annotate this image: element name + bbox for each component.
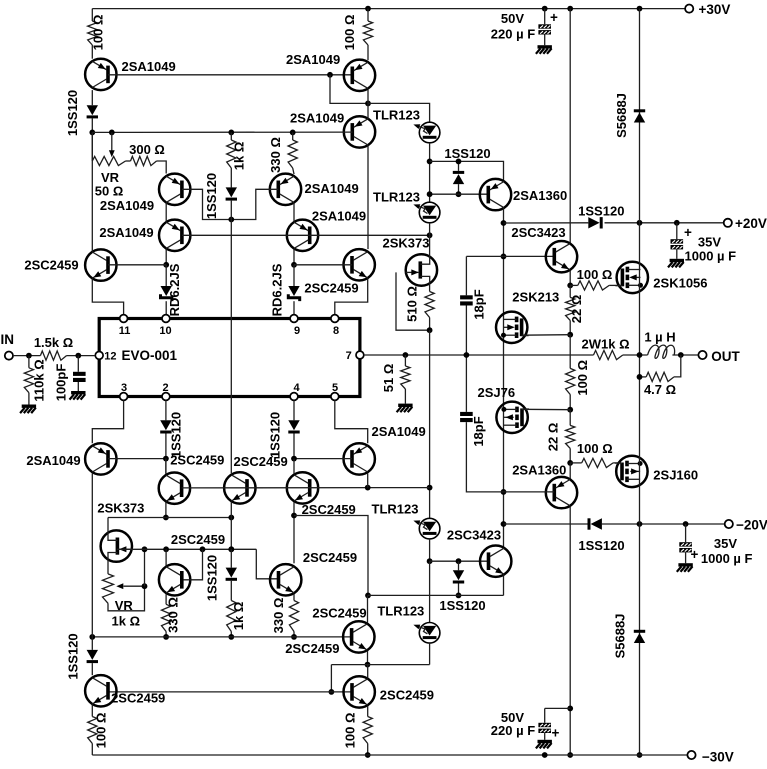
resistor R 2W1kohm [594,350,623,359]
resistor R 510ohm [425,292,434,318]
node [501,521,507,527]
node [567,460,573,466]
wire [429,143,431,202]
wire [230,132,232,140]
wire Q4-Q5 base tie [182,189,278,219]
wire [429,643,431,665]
terminal +30V [685,2,730,17]
LED TLR123 #4 [377,604,440,644]
wire [605,222,724,224]
svg-text:2SC2459: 2SC2459 [304,280,358,295]
transistor Q1 2SA1049 top-left [85,59,176,90]
pin 2 [162,382,170,401]
ground cap -20V [677,563,693,572]
wire [429,318,431,331]
wire [466,422,503,492]
diode 1SS120 -20V [578,518,624,553]
wire [602,523,725,525]
svg-text:OUT: OUT [711,349,740,364]
svg-text:100pF: 100pF [53,364,68,402]
node [200,546,206,552]
wire [165,459,167,474]
transistor Q7 2SA1049 right-3 [287,209,366,252]
svg-text:18pF: 18pF [471,416,486,446]
wire -20V line [504,523,588,525]
wire [466,255,554,257]
svg-text:2SC2459: 2SC2459 [303,550,357,565]
transistor Q5 2SA1049 mid-right [270,174,359,205]
node [427,558,433,564]
wire Q22 collector [367,665,369,678]
node [567,706,573,712]
node [456,593,462,599]
wire Q8 emitter to pin11 [92,279,123,315]
mosfet 2SJ160 [615,456,698,487]
node [456,191,462,197]
wire [674,355,681,377]
svg-text:2SK1056: 2SK1056 [653,275,707,290]
wire [293,459,295,474]
svg-text:TLR123: TLR123 [372,502,419,517]
diode 1SS120 pin4 [268,412,300,458]
wire pin5 to Q13 [335,400,368,443]
transistor Q13 2SA1049 bottom-right [344,424,426,474]
svg-text:+: + [684,225,692,240]
wire [569,395,571,410]
node [427,327,433,333]
transistor Q18 2SC3423 bottom [447,528,512,577]
node [501,489,507,495]
wire bias line [92,131,352,133]
svg-text:22 Ω: 22 Ω [569,295,584,324]
wire Q15 emitter column [230,502,232,550]
wire pin3 to Q12 [92,400,123,443]
wire Q8 collector [91,132,93,251]
wire Q18 base line [430,560,489,562]
transistor Q21 2SC2459 far-left [85,675,165,706]
svg-text:1 µ H: 1 µ H [644,329,675,344]
resistor R 22ohm top [566,297,575,320]
node [427,159,433,165]
node [567,283,573,289]
capacitor C 220uF top [538,24,551,34]
node [291,634,297,640]
wire Q1 collector to diode [91,90,93,105]
node [109,130,115,136]
wire [569,410,571,426]
capacitor C 220uF bottom [538,723,551,733]
wire Q12 base [108,458,166,460]
wire VR loop [108,586,145,611]
diode S5688J top [614,93,645,138]
node [542,752,548,758]
node [637,374,643,380]
wire JFET gate loop [396,272,430,330]
node [163,634,169,640]
wire 300ohm to Q4 [157,161,167,174]
svg-text:−20V: −20V [736,517,767,532]
node [228,217,234,223]
transistor Q4 2SA1049 left-mid [100,174,191,213]
potentiometer VR 1kohm [103,574,114,603]
wire Q11 emitter [569,271,571,286]
LED TLR123 #2 [373,190,440,223]
wire [126,160,131,162]
node [637,220,643,226]
transistor Q17 2SA1360 bottom [512,462,577,508]
resistor R 100ohm bottom-left [88,717,97,744]
svg-text:2SA1049: 2SA1049 [305,181,359,196]
wire [230,632,232,637]
svg-text:−30V: −30V [702,749,734,764]
wire [544,35,546,46]
wire pin2 diode [165,400,167,420]
wire [165,265,167,286]
svg-text:100 Ω: 100 Ω [94,713,109,749]
wire link down [330,665,332,692]
svg-text:2SA1049: 2SA1049 [100,198,154,213]
wire Q23 emitter [293,594,295,601]
node [637,752,643,758]
wire Q22 emitter [367,706,369,717]
node [291,513,297,519]
svg-text:TLR123: TLR123 [373,190,420,205]
svg-text:2SA1049: 2SA1049 [286,52,340,67]
resistor R 330ohm top [288,140,297,168]
wire [165,301,167,314]
svg-text:35V: 35V [698,235,721,250]
svg-text:1k Ω: 1k Ω [231,602,246,631]
wire [429,223,431,236]
node [228,130,234,136]
transistor Q6 2SA1049 left-3 [99,220,190,251]
svg-text:220 µ F: 220 µ F [491,26,535,41]
node [228,546,234,552]
wire [293,301,295,314]
svg-text:330 Ω: 330 Ω [268,137,283,173]
svg-text:1000 µ F: 1000 µ F [701,551,753,566]
wire [544,708,546,722]
svg-text:2SC2459: 2SC2459 [312,605,366,620]
wire +20V line [504,222,589,224]
pin 4 [290,382,300,401]
wire pin4 diode [293,400,295,420]
resistor R 330ohm bottom-left [162,604,171,631]
node [567,407,573,413]
node [365,6,371,12]
wire 510 node down [429,330,431,518]
transistor Q3 2SA1049 right-2 [290,110,375,147]
transistor Q14 2SC2459 b1 [159,452,225,504]
svg-text:220 µ F: 220 µ F [491,723,535,738]
svg-text:+20V: +20V [735,216,767,231]
wire [91,9,93,21]
wire [623,354,648,356]
wire S5688J rail [639,9,641,755]
wire output line [364,354,594,356]
wire [404,355,406,366]
node [637,352,643,358]
svg-text:RD6.2JS: RD6.2JS [167,263,182,316]
wire [569,335,571,369]
wire [367,9,369,21]
wire Q14 collector [165,459,167,474]
wire [367,103,369,118]
diode 1SS120 pin2 [160,412,183,458]
svg-text:7: 7 [346,350,352,362]
resistor R 100ohm gate-bottom [582,458,613,467]
svg-text:11: 11 [119,325,131,337]
wire [230,168,232,187]
node [365,485,371,491]
svg-text:2SA1360: 2SA1360 [513,188,567,203]
wire [458,584,460,596]
zener RD6.2JS left [161,263,182,316]
wire Q16 emitter column [293,502,295,563]
ground 110k [20,405,36,414]
node [75,353,81,359]
pin 10 [159,315,171,337]
terminal OUT [698,349,740,364]
wire emitter line left [108,517,231,519]
transistor Q8 2SC2459 left [24,249,116,280]
wire [685,524,687,542]
svg-text:2SJ160: 2SJ160 [653,468,698,483]
resistor R 100ohm gate-top [578,281,609,290]
svg-text:2SC2459: 2SC2459 [380,688,434,703]
svg-text:2: 2 [162,382,168,394]
node [637,521,643,527]
terminal IN [1,332,15,360]
svg-text:IN: IN [1,332,15,347]
node [163,515,169,521]
resistor R 100ohm top-left [88,21,97,45]
wire Q2 base branch [330,75,368,104]
wire [458,561,460,570]
svg-text:1SS120: 1SS120 [268,412,283,458]
pin 8 [331,315,339,337]
wire [230,581,232,601]
wire [91,45,93,59]
terminal +20V [724,216,767,231]
wire base line Q21-Q22 [108,691,352,693]
wire [672,354,698,356]
transistor Q20 2SC2459 b-center [312,605,374,652]
wire [292,132,294,140]
IC U1 EVO-001 box [99,319,360,397]
svg-text:2SC3423: 2SC3423 [511,225,565,240]
wire to Q23 base [256,549,278,579]
svg-text:100 Ω: 100 Ω [577,267,613,282]
svg-text:2SA1360: 2SA1360 [512,462,566,477]
wire [404,389,406,404]
wire [613,462,621,464]
svg-text:100 Ω: 100 Ω [342,713,357,749]
wire Q19 base L [183,549,202,580]
zener RD6.2JS right [269,263,299,316]
LED TLR123 #1 [373,108,440,143]
wire [91,118,93,132]
wire [609,284,620,286]
wire [293,168,294,174]
svg-text:4.7 Ω: 4.7 Ω [644,382,676,397]
node [365,752,371,758]
resistor R 300ohm [131,156,157,165]
svg-text:3: 3 [121,382,127,394]
wire 220uF bottom link [545,707,571,709]
mosfet 2SJ76 [478,385,530,433]
wire [429,539,431,561]
wire [165,632,167,637]
svg-text:1SS120: 1SS120 [168,412,183,458]
svg-text:1k Ω: 1k Ω [112,614,141,629]
node [142,546,148,552]
terminal -30V [687,749,733,764]
terminal -20V [725,517,767,532]
svg-text:EVO-001: EVO-001 [122,348,178,363]
diode 1SS120 mid-top [204,173,237,219]
wire top +30V rail [92,8,685,10]
pin 9 [290,315,300,337]
wire [91,663,93,675]
transistor Q23 2SC2459 bmr [270,550,357,596]
node [291,456,297,462]
svg-text:2SC3423: 2SC3423 [447,528,501,543]
svg-text:1SS120: 1SS120 [439,598,485,613]
wire [28,393,30,405]
transistor Q12 2SA1049 bottom-left [26,443,116,474]
node [427,485,433,491]
svg-text:2SK213: 2SK213 [512,290,559,305]
svg-text:300 Ω: 300 Ω [129,142,165,157]
ground cap +20V [668,259,684,268]
wire [165,434,167,459]
inductor L 1uH [648,345,675,358]
wire 1k column through IC [230,220,232,474]
svg-text:1SS120: 1SS120 [65,90,80,136]
svg-text:50V: 50V [501,11,524,26]
wire Q5-Q7 [293,203,295,222]
wire JFET drain [429,235,431,256]
ground 220uF bottom [536,740,552,749]
node [427,191,433,197]
resistor R 330ohm bottom-right [289,601,298,632]
node [674,220,680,226]
node [291,262,297,268]
wire Q17 collector [569,463,571,479]
svg-text:8: 8 [333,325,339,337]
svg-text:5: 5 [332,382,338,394]
svg-text:510 Ω: 510 Ω [404,286,419,322]
wire Q3 collector column [367,145,369,249]
svg-text:2SA1049: 2SA1049 [26,453,80,468]
node [163,262,169,268]
wire [570,284,578,286]
svg-text:2SC2459: 2SC2459 [24,257,78,272]
wire 2SJ76 gate lead [522,408,571,410]
mosfet 2SK1056 [615,262,707,293]
node [365,662,371,668]
diode 1SS120 bottom-mid [205,555,237,601]
wire [676,223,678,239]
resistor R 110kohm [24,368,33,393]
wire emitter line right [294,516,368,596]
capacitor C 18pF top [460,295,473,305]
wire emitter return line [368,594,504,596]
wire [640,376,647,378]
svg-text:50 Ω: 50 Ω [95,184,124,199]
svg-text:1SS120: 1SS120 [65,633,80,679]
transistor Q10 2SA1360 top [480,179,567,210]
node [89,130,95,136]
node [567,6,573,12]
diode 1SS120 bottom-left [65,633,98,679]
node [427,232,433,238]
wire bias line bottom [92,636,351,638]
wire Q10 collector [503,208,505,547]
transistor Q2 2SA1049 top-right [286,52,375,91]
transistor Q19 2SC2459 bm [159,532,225,595]
wire [569,285,571,297]
capacitor C 100pF [73,372,86,382]
wire JFETb drain [107,518,109,533]
wire [544,733,546,740]
wire [293,632,295,637]
svg-text:1000 µ F: 1000 µ F [685,248,737,263]
node [329,689,335,695]
resistor R 22ohm bottom [566,425,575,448]
wire base line b [182,487,430,489]
svg-text:110k Ω: 110k Ω [32,359,47,401]
svg-text:2SC2459: 2SC2459 [170,452,224,467]
svg-text:12: 12 [104,351,116,363]
pin 11 [119,315,131,337]
wire [570,462,582,464]
transistor Q15 2SC2459 b2 [224,454,288,503]
capacitor C 1000uF -20V [679,542,692,552]
resistor R 51ohm [401,366,410,389]
wire gate line bottom [117,548,256,550]
svg-text:100 Ω: 100 Ω [342,15,357,51]
capacitor C 1000uF +20V [671,239,684,249]
pin 5 [331,382,339,401]
diode 1SS120 b2 [453,570,464,583]
wire LED to Q10 emitter [430,161,504,181]
wire Q21 emitter [91,705,93,717]
transistor Q11 2SC3423 top [511,225,577,273]
svg-text:1SS120: 1SS120 [578,538,624,553]
LED TLR123 #3 [372,502,440,539]
wire TLR link line [331,664,429,666]
wire Q20 emitter [367,651,369,665]
wire [28,356,30,368]
svg-text:1.5k Ω: 1.5k Ω [34,335,73,350]
pin 3 [120,382,128,401]
node [163,546,169,552]
svg-text:TLR123: TLR123 [373,108,420,123]
node [365,593,371,599]
ground 51ohm [397,404,413,413]
resistor R 100ohm mid [566,368,575,394]
ground 100pF [70,391,86,400]
svg-text:4: 4 [293,382,300,394]
node [228,515,234,521]
node [567,332,573,338]
diode 1SS120 upper-mid [453,171,464,184]
resistor R 1kohm bottom [227,601,236,632]
transistor Q22 2SC2459 b-right [344,676,435,707]
wire Q8 base [108,264,166,266]
